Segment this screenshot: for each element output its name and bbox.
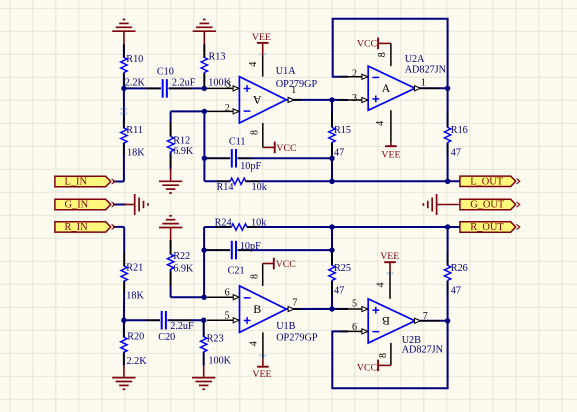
svg-text:18K: 18K — [126, 290, 144, 301]
svg-text:4: 4 — [376, 283, 387, 288]
svg-text:4: 4 — [375, 121, 386, 126]
svg-text:R20: R20 — [127, 331, 144, 342]
svg-text:5: 5 — [225, 311, 230, 322]
wire G_IN to ground — [113, 204, 126, 206]
wire C21 row — [204, 249, 230, 251]
resistor R21 — [121, 266, 127, 281]
svg-text:8: 8 — [249, 130, 260, 135]
svg-text:2.2K: 2.2K — [127, 356, 148, 367]
wire U1A pin2 column: pin2 row down to R14 row — [203, 111, 205, 181]
pin grid markers — [120, 108, 122, 110]
svg-text:2: 2 — [352, 68, 357, 79]
svg-text:G_IN: G_IN — [65, 200, 89, 211]
svg-text:VCC: VCC — [357, 38, 377, 49]
power port VEE above U2B (pin 4) — [384, 261, 396, 263]
svg-text:AD827JN: AD827JN — [402, 344, 444, 355]
svg-text:6.9K: 6.9K — [173, 264, 194, 275]
wire R12 to pin2 node — [171, 110, 205, 112]
power port VCC below U1A (pin 8) — [262, 123, 264, 147]
svg-text:R26: R26 — [451, 263, 468, 274]
U1A input pin arrows — [233, 86, 239, 91]
svg-text:18K: 18K — [127, 148, 145, 159]
svg-text:R10: R10 — [126, 54, 143, 65]
svg-text:7: 7 — [423, 311, 428, 322]
svg-text:100K: 100K — [208, 355, 231, 366]
ground at G_IN — [134, 194, 136, 215]
wire C11 row — [204, 157, 230, 159]
svg-text:8: 8 — [249, 274, 260, 279]
resistor R12 — [167, 137, 173, 152]
svg-text:OP279GP: OP279GP — [276, 332, 318, 343]
svg-text:2.2uF: 2.2uF — [172, 78, 196, 89]
U1B output pin arrow — [288, 306, 294, 311]
U1A output pin arrow — [288, 97, 294, 102]
svg-text:AD827JN: AD827JN — [405, 65, 447, 76]
svg-text:4: 4 — [249, 341, 260, 346]
wire U2A output to R16 node — [413, 87, 448, 89]
svg-text:C20: C20 — [158, 332, 175, 343]
wire R14 row to L_OUT — [204, 180, 230, 182]
wire column R23 to ground — [203, 320, 205, 337]
resistor R15 — [329, 127, 335, 142]
svg-text:47: 47 — [451, 148, 461, 159]
op-amp U1A OP279GP — [239, 77, 286, 123]
U2A input pin arrows — [362, 74, 368, 79]
wire U2B feedback loop: output down, across, up to pin 6 — [332, 321, 447, 388]
op-amp U2A AD827JN — [368, 66, 415, 110]
capacitor C21 — [231, 241, 233, 260]
ground below R12 — [159, 180, 182, 182]
ground below R20 — [112, 377, 135, 379]
svg-text:VCC: VCC — [276, 143, 296, 154]
svg-text:C11: C11 — [229, 137, 246, 148]
svg-text:2: 2 — [225, 103, 230, 114]
capacitor C11 — [231, 149, 233, 168]
svg-text:47: 47 — [334, 148, 344, 159]
wire row A: R10 junction to C10 to R13 junction to U1A pin 3 — [124, 87, 161, 89]
svg-text:R22: R22 — [173, 251, 190, 262]
wire U1B pin6 column: R24 row down to pin6 row — [203, 227, 205, 297]
op-amp U2B AD827JN — [368, 299, 415, 343]
wire column R13 from ground stem — [203, 44, 205, 58]
svg-text:VEE: VEE — [381, 149, 400, 160]
capacitor C20 — [161, 311, 163, 330]
svg-text:8: 8 — [377, 52, 388, 57]
svg-text:R25: R25 — [334, 263, 351, 274]
wire U2B output to R26 node — [413, 320, 448, 322]
resistor R20 — [121, 337, 127, 352]
wire row C20: R20 junction to C20 to R23 junction to U1B pin 5 — [124, 319, 160, 321]
resistor R22 — [167, 254, 173, 269]
ground below R23 — [192, 377, 215, 379]
svg-text:R16: R16 — [451, 125, 468, 136]
svg-text:47: 47 — [451, 286, 461, 297]
svg-text:2.2K: 2.2K — [125, 77, 146, 88]
svg-text:R14: R14 — [217, 182, 234, 193]
resistor R23 — [201, 337, 207, 352]
resistor R25 — [329, 265, 335, 280]
ground above R10 — [112, 30, 135, 32]
svg-text:2.2uF: 2.2uF — [170, 321, 194, 332]
svg-text:VCC: VCC — [276, 259, 296, 270]
svg-text:VEE: VEE — [252, 369, 271, 380]
svg-text:6.9K: 6.9K — [173, 146, 194, 157]
ground above R13 — [193, 30, 216, 32]
pin segments (black) near components — [123, 44, 125, 58]
wire R26 column: R_OUT row down to U2B out node — [447, 227, 449, 265]
svg-text:5: 5 — [352, 298, 357, 309]
svg-text:10k: 10k — [251, 218, 267, 229]
wire U1B output to R25 node to U2B pin 5 — [286, 308, 332, 310]
power port VCC below U2B (pin 8) — [390, 343, 392, 366]
wire U2A feedback loop: output up, across, down to pin 2 — [333, 19, 448, 89]
svg-text:10k: 10k — [252, 182, 268, 193]
wire R12 column — [170, 111, 172, 136]
svg-text:6: 6 — [352, 322, 357, 333]
svg-text:R13: R13 — [209, 52, 226, 63]
ground at G_OUT — [436, 194, 438, 215]
svg-text:R23: R23 — [207, 333, 224, 344]
svg-text:VEE: VEE — [380, 251, 399, 262]
resistor R26 — [444, 265, 450, 280]
port G_OUT — [460, 199, 516, 209]
svg-text:1: 1 — [291, 85, 296, 96]
capacitor C10 — [162, 79, 164, 98]
svg-text:A: A — [253, 93, 262, 107]
wire R22 to pin6 node — [171, 296, 205, 298]
ground above R22 — [159, 227, 182, 229]
port L_IN — [55, 176, 111, 186]
svg-text:R_IN: R_IN — [65, 222, 89, 233]
resistor R10 — [121, 58, 127, 73]
svg-text:C10: C10 — [157, 66, 174, 77]
wire column R21/R20: R_IN corner down to ground stem — [123, 227, 125, 266]
svg-text:47: 47 — [334, 286, 344, 297]
power port VCC above U2A (pin 8) — [377, 38, 379, 50]
power port VEE below U1B (pin 4) — [262, 332, 264, 358]
port R_IN — [55, 222, 111, 232]
svg-text:VCC: VCC — [357, 362, 377, 373]
svg-text:C21: C21 — [228, 266, 245, 277]
U1B input pin arrows — [233, 295, 239, 300]
svg-text:7: 7 — [292, 297, 297, 308]
resistor R11 — [121, 128, 127, 143]
svg-text:L_OUT: L_OUT — [470, 177, 504, 188]
wire column R10/R11: ground stem down to L_IN corner — [123, 44, 125, 58]
svg-text:R12: R12 — [173, 135, 190, 146]
svg-text:A: A — [382, 81, 391, 95]
svg-text:R11: R11 — [126, 125, 143, 136]
svg-text:10pF: 10pF — [240, 241, 261, 252]
wire R22 column — [170, 240, 172, 254]
power port VEE above U1A — [257, 42, 269, 44]
wire R25 column: R24 row down to U1B out node — [331, 227, 333, 265]
svg-text:OP279GP: OP279GP — [276, 79, 318, 90]
resistor R16 — [444, 127, 450, 142]
svg-text:8: 8 — [378, 353, 389, 358]
svg-text:R15: R15 — [334, 125, 351, 136]
svg-text:L_IN: L_IN — [65, 177, 88, 188]
wire R_IN to R21 column — [113, 226, 124, 228]
wire R16 column: U2A out node down to L_OUT row — [447, 88, 449, 127]
svg-text:R21: R21 — [126, 263, 143, 274]
svg-text:U2A: U2A — [405, 54, 425, 65]
svg-text:B: B — [382, 314, 390, 328]
svg-text:U1A: U1A — [276, 66, 296, 77]
power port VEE below U2A (pin 4) — [390, 110, 392, 142]
svg-text:R24: R24 — [215, 218, 232, 229]
svg-text:3: 3 — [352, 93, 357, 104]
U2B input pin arrows — [362, 306, 368, 311]
svg-text:VEE: VEE — [252, 32, 271, 43]
power port VCC above U1B (pin 8) — [262, 264, 264, 286]
svg-text:1: 1 — [421, 77, 426, 88]
svg-text:B: B — [253, 302, 261, 316]
svg-text:U1B: U1B — [276, 321, 295, 332]
port G_IN — [55, 199, 111, 209]
wire L_IN to R11 column — [113, 181, 124, 183]
svg-text:3: 3 — [226, 80, 231, 91]
op-amp U1B OP279GP — [240, 286, 287, 333]
svg-text:10pF: 10pF — [240, 161, 261, 172]
resistor R13 — [201, 58, 207, 73]
svg-text:4: 4 — [248, 62, 259, 67]
wire U1A output to R15 node to U2A pin 3 — [286, 99, 332, 101]
port R_OUT — [460, 222, 516, 232]
resistor R14 — [230, 178, 246, 184]
wire R15 column: U1A out node down to R14 row — [331, 100, 333, 127]
svg-text:G_OUT: G_OUT — [470, 200, 505, 211]
U2A output pin arrow — [415, 86, 421, 91]
svg-text:6: 6 — [225, 288, 230, 299]
U2B output pin arrow — [415, 318, 421, 323]
resistor R24 — [231, 224, 247, 230]
junction dots — [121, 86, 126, 91]
port L_OUT — [460, 176, 516, 186]
svg-text:R_OUT: R_OUT — [470, 222, 504, 233]
wire R24 row to R_OUT — [204, 226, 231, 228]
